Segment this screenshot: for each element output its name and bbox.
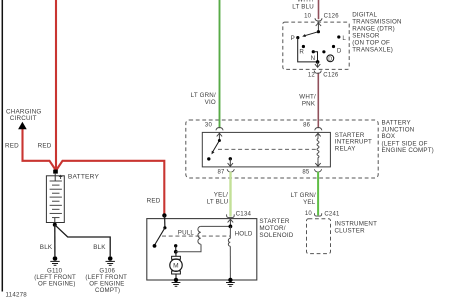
svg-text:BLK: BLK <box>93 244 106 251</box>
DTR pin 12 arrow <box>317 62 319 67</box>
svg-text:114278: 114278 <box>6 292 28 297</box>
relay fixed contact dot <box>207 157 210 160</box>
relay coil K1 <box>317 136 319 161</box>
ground symbol (hold coil) <box>226 283 235 287</box>
svg-text:10: 10 <box>305 211 313 217</box>
svg-text:SOLENOID: SOLENOID <box>259 232 293 239</box>
solenoid fixed contact dot <box>174 244 177 247</box>
pin 85 arrow <box>317 161 319 166</box>
charging circuit arrow <box>18 122 27 129</box>
svg-text:LT BLU: LT BLU <box>292 3 314 10</box>
svg-text:DIGITAL: DIGITAL <box>352 12 377 19</box>
battery internal stub top <box>54 174 56 181</box>
battery positive terminal <box>53 170 58 174</box>
svg-text:(ON TOP OF: (ON TOP OF <box>352 39 390 46</box>
hold coil HC1 <box>229 226 231 238</box>
svg-text:INSTRUMENT: INSTRUMENT <box>335 221 378 228</box>
battery B1 box <box>46 176 64 223</box>
wire feed into solenoid switch <box>164 215 166 227</box>
svg-text:TRANSAXLE): TRANSAXLE) <box>352 46 393 53</box>
wire BLK to G106 <box>55 225 110 256</box>
pin 85 boundary connector <box>314 169 321 172</box>
ground node (hold coil) <box>228 278 232 282</box>
pin 87 boundary connector <box>227 169 234 172</box>
wire LT GRN/YEL relay 85 to C241 <box>317 172 319 216</box>
svg-text:CLUSTER: CLUSTER <box>335 228 366 235</box>
svg-text:RED: RED <box>38 142 52 149</box>
svg-text:L: L <box>342 35 346 42</box>
wire P contact to output <box>298 38 318 62</box>
wire RED battery feed vertical <box>55 0 57 171</box>
node: red feed junction at starter <box>162 213 166 217</box>
node C134 junction <box>229 225 233 229</box>
svg-text:PNK: PNK <box>302 100 316 107</box>
svg-text:30: 30 <box>205 122 213 128</box>
svg-text:OF ENGINE): OF ENGINE) <box>38 280 76 287</box>
contact P dot <box>296 36 299 39</box>
svg-text:YEL: YEL <box>303 199 316 206</box>
svg-text:COMPT): COMPT) <box>95 287 120 294</box>
svg-text:HOLD: HOLD <box>235 231 253 238</box>
svg-text:85: 85 <box>302 170 310 176</box>
battery negative terminal dot <box>53 223 57 227</box>
battery cell plates <box>50 181 62 218</box>
DTR sensor box (dashed) <box>283 22 349 69</box>
wire contact to motor node <box>175 246 177 252</box>
motor M1 <box>170 259 182 271</box>
wire coil feed from C134 node <box>201 225 231 227</box>
ground symbol (motor) <box>172 283 181 287</box>
wire pull coil return <box>176 244 201 252</box>
battery internal stub bottom <box>54 218 56 225</box>
svg-text:RED: RED <box>147 198 161 205</box>
svg-text:C241: C241 <box>324 211 340 217</box>
motor brush (bottom) <box>172 271 181 274</box>
svg-text:CIRCUIT: CIRCUIT <box>10 115 37 122</box>
ground G110 <box>50 256 59 265</box>
svg-text:BATTERY: BATTERY <box>68 174 100 181</box>
wire N contact to output <box>313 52 317 62</box>
svg-text:LT GRN/: LT GRN/ <box>291 192 316 199</box>
contact D dot <box>332 45 335 48</box>
relay switch pivot <box>218 139 221 142</box>
relay pin 87 contact dot <box>229 157 232 160</box>
svg-text:ENGINE COMPT): ENGINE COMPT) <box>382 147 434 154</box>
svg-text:PULL: PULL <box>178 229 195 236</box>
figure margin line <box>1 0 3 292</box>
connector C126 pin 12 <box>314 71 321 74</box>
contact N dot <box>312 50 315 53</box>
svg-text:86: 86 <box>303 122 311 128</box>
pin 86 boundary connector <box>315 128 322 131</box>
wire WHT/PNK from DTR to relay pin 86 <box>317 73 319 129</box>
wire YEL/LT BLU relay 87 to C134 <box>229 172 231 217</box>
svg-text:BOX: BOX <box>382 133 396 140</box>
ground G106 <box>106 256 115 265</box>
svg-text:MOTOR/: MOTOR/ <box>259 225 285 232</box>
svg-text:10: 10 <box>304 14 312 20</box>
svg-text:87: 87 <box>218 170 226 176</box>
wire motor feed <box>175 252 177 256</box>
svg-text:LT BLU: LT BLU <box>207 199 229 206</box>
connector C241 <box>315 213 322 216</box>
contact L dot <box>337 35 340 38</box>
starter interrupt relay box <box>202 132 330 167</box>
wire WHT/LT BLU to DTR pin 10 <box>318 0 320 19</box>
wire RED feed to starter (horizontal run) <box>56 161 164 215</box>
motor M brush (top) <box>172 256 181 259</box>
svg-text:C126: C126 <box>323 73 339 79</box>
pin 87 arrow <box>229 159 231 166</box>
wire BLK to G110 <box>54 225 56 256</box>
starter motor/solenoid box <box>147 219 257 280</box>
svg-text:C134: C134 <box>236 210 252 217</box>
svg-text:12: 12 <box>308 73 316 79</box>
circled D (overdrive) <box>327 55 334 62</box>
wire LT GRN/VIO to relay pin 30 <box>219 0 221 128</box>
svg-text:SENSOR: SENSOR <box>352 32 380 39</box>
wire motor to ground <box>175 274 177 280</box>
wire RED charging-circuit branch <box>23 129 57 171</box>
contact R dot <box>302 45 305 48</box>
node motor/pull-coil junction <box>174 250 178 254</box>
svg-text:VIO: VIO <box>205 99 216 106</box>
svg-text:STARTER: STARTER <box>259 218 289 225</box>
solenoid switch pivot <box>163 226 166 229</box>
solenoid switch blade <box>155 228 165 245</box>
solenoid linkage (dashed) <box>162 235 230 237</box>
ground node (motor) <box>174 278 178 282</box>
relay linkage (dashed) <box>218 148 317 150</box>
instrument cluster box (dashed) <box>307 219 331 254</box>
battery + mark <box>59 175 62 179</box>
svg-text:P: P <box>291 35 295 42</box>
DTR pin 10 arrow <box>316 23 321 26</box>
svg-text:C126: C126 <box>324 14 340 20</box>
DTR blade arrowhead <box>302 34 306 37</box>
connector C134 <box>227 214 235 217</box>
pin arrow at C134 entry <box>228 219 234 222</box>
solenoid switch blade end dot <box>153 244 157 248</box>
pull coil PL1 <box>198 226 201 244</box>
connector C126 pin 10 <box>315 18 322 21</box>
svg-text:RELAY: RELAY <box>335 145 356 152</box>
node DTR output junction <box>316 60 320 64</box>
battery junction box (dashed) <box>186 120 378 178</box>
svg-text:D: D <box>337 47 342 54</box>
wire hold coil to ground <box>229 246 231 280</box>
svg-text:WHT/: WHT/ <box>299 93 316 100</box>
DTR selector pivot dot <box>317 30 320 33</box>
svg-text:RED: RED <box>5 142 19 149</box>
pin 86 arrow <box>315 133 320 136</box>
relay blade arrowhead <box>212 151 215 155</box>
contact D2 dot <box>322 50 325 53</box>
DTR selector blade <box>305 32 319 36</box>
pin 30 boundary connector <box>216 128 223 131</box>
svg-text:R: R <box>299 49 304 56</box>
svg-text:N: N <box>311 55 316 62</box>
svg-text:M: M <box>173 263 179 270</box>
relay switch blade <box>212 141 219 153</box>
svg-text:BLK: BLK <box>40 244 53 251</box>
pin 30 arrow <box>217 133 222 136</box>
svg-text:D: D <box>328 56 332 62</box>
